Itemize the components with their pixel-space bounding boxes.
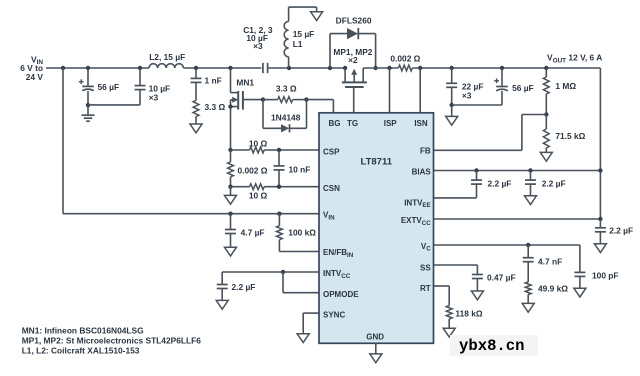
svg-text:2.2 µF: 2.2 µF [609,225,633,235]
wire 100pF bottom lead [579,276,581,288]
svg-text:0.002 Ω: 0.002 Ω [238,165,268,175]
wire 1N4148 right leg [290,127,307,129]
junction input 10uF tap [138,66,142,70]
wire ISP pin lead [389,68,391,113]
junction rail-to-VIN-pin column [61,66,65,70]
junction 56uF output tap [500,66,504,70]
junction BIAS-VOUT column [598,168,602,172]
wire to 22uF ground [451,105,453,116]
svg-text:10 Ω: 10 Ω [249,190,268,200]
transistor MN1 body arrow [231,99,238,101]
wire 4.7nF top lead [527,245,529,258]
wire 71.5k bottom lead [545,148,547,152]
watermark background [450,335,538,356]
ground BIAS cap2 [525,196,537,205]
wire FB pin path [434,149,522,151]
svg-text:×3: ×3 [253,41,263,51]
wire left VIN column down [62,68,64,214]
wire EXTVCC row [434,218,601,220]
ground 4.7uF [225,247,237,256]
svg-text:SYNC: SYNC [323,311,345,320]
junction 1M tap [544,66,548,70]
wire 0.47uF top lead [476,265,478,274]
wire 22uF bottom lead [451,87,453,105]
wire MN1 source stub [231,106,239,108]
capacitor 100pF [574,271,585,273]
wire MN1 drain lead [230,68,232,93]
svg-text:100 kΩ: 100 kΩ [288,227,316,237]
wire INTVCC row [222,271,319,273]
wire 1M bottom lead [545,94,547,115]
junction L1 tap [287,66,291,70]
svg-text:L1, L2: Coilcraft XAL1510-153: L1, L2: Coilcraft XAL1510-153 [22,345,140,355]
wire 100k to EN/FBIN [278,240,280,252]
svg-text:4.7 µF: 4.7 µF [241,227,265,237]
wire VIN rail segment 1 [46,67,149,69]
ground SYNC [297,334,309,343]
svg-text:ISN: ISN [414,119,428,128]
svg-text:10 Ω: 10 Ω [249,138,268,148]
capacitor C1,2,3 10uF x3 series [262,63,264,73]
svg-text:CSN: CSN [323,184,340,193]
svg-text:VOUT 12 V, 6 A: VOUT 12 V, 6 A [547,53,602,65]
svg-text:1 nF: 1 nF [205,76,222,86]
wire MN1 source to CSP [230,107,232,150]
resistor 49.9k [525,282,531,295]
ground 22uF [446,116,458,125]
wire 1N4148 left leg [262,100,264,129]
junction CSN left [228,185,232,189]
wire GND pin lead [375,343,377,354]
wire 10uF bottom lead [139,90,141,105]
wire CSP row right stub [264,149,319,151]
svg-text:LT8711: LT8711 [361,156,393,167]
svg-text:3.3 Ω: 3.3 Ω [276,84,297,94]
svg-text:×3: ×3 [462,91,472,101]
junction FB divider node [544,112,548,116]
ground 0.47uF [471,291,483,300]
op-amp U1 LT8711 body [319,113,434,343]
resistor 100k [277,226,283,240]
resistor 0.002R sense [228,162,234,177]
junction 22uF tap [450,66,454,70]
junction snubber tap [194,66,198,70]
wire DFLS260 right leg [358,33,375,35]
svg-text:MP1, MP2: St Microelectronics: MP1, MP2: St Microelectronics STL42P6LLF… [22,335,202,345]
svg-text:3.3 Ω: 3.3 Ω [205,102,226,112]
wire 0.47uF bottom lead [476,279,478,292]
svg-text:L1: L1 [293,39,303,49]
ground EXTVCC cap [594,244,606,253]
junction EXTVCC column [598,217,602,221]
capacitor 2.2uF INTVCC [217,284,228,286]
diode 1N4148 [281,124,289,132]
svg-text:MN1: Infineon BSC016N04LSG: MN1: Infineon BSC016N04LSG [22,325,144,335]
wire BIAS cap2 bottom lead [530,184,532,196]
transistor MN1 gate bar [242,91,244,110]
wire 56uF top lead [87,68,89,86]
wire 56uF output bottom lead [501,91,503,105]
wire ISN pin lead [419,68,421,113]
wire 3.3R to BG node [293,99,307,101]
ground 118k [443,328,455,337]
wire rail segment 5 [412,67,600,69]
transistor MP1/MP2 channel bar [342,81,367,83]
capacitor 4.7uF VIN [225,229,236,231]
junction input caps common [86,103,90,107]
svg-text:15 µF: 15 µF [293,29,315,39]
resistor 1M [543,77,549,94]
junction VC comp tap [526,243,530,247]
junction MN1 source [228,104,232,108]
capacitor 2.2uF BIAS-INTVEE [471,179,482,181]
resistor 71.5k [543,129,549,148]
junction BIAS cap1 tap [474,168,478,172]
svg-text:0.002 Ω: 0.002 Ω [390,53,420,63]
wire BIAS cap2 top lead [530,171,532,181]
wire 1M top lead [545,68,547,77]
svg-text:SS: SS [420,264,431,273]
wire SYNC lead [303,312,319,314]
wire sense resistor leads [230,150,232,162]
junction INTVCC-OPMODE [281,270,285,274]
wire 4.7nF to 49.9k [527,262,529,282]
wire 4.7uF bottom lead [230,234,232,248]
wire 2.2uF INTVCC bottom lead [221,289,223,301]
junction output caps common [450,103,454,107]
svg-text:ybx8.cn: ybx8.cn [459,337,525,355]
wire 100pF top lead [579,245,581,272]
wire MN1 gate lead [243,99,263,101]
resistor 118k [446,306,452,320]
transistor MP1/MP2 body arrow [353,71,355,83]
wire OPMODE link [282,272,284,293]
capacitor 2.2uF BIAS [525,179,536,181]
wire 100k top lead [278,214,280,226]
capacitor 1nF [191,77,202,79]
wire to input ground [87,105,89,115]
junction gate net left [261,97,265,101]
wire 4.7uF top lead [230,214,232,230]
label + polarity input 56uF [79,81,84,83]
wire input caps bottom link [88,104,140,106]
svg-text:24 V: 24 V [26,72,44,82]
wire RT lead [434,285,450,287]
ground GND pin [370,354,382,363]
wire 71.5k top lead [545,115,547,130]
svg-text:2.2 µF: 2.2 µF [488,178,512,188]
svg-text:0.47 µF: 0.47 µF [487,273,516,283]
svg-text:MN1: MN1 [236,78,254,88]
junction CSP right [277,148,281,152]
ground 71.5k [540,152,552,161]
svg-text:×2: ×2 [348,55,358,65]
svg-text:1N4148: 1N4148 [271,112,301,122]
ground snubber [190,124,202,133]
wire gate to 3.3R [263,99,278,101]
svg-text:100 pF: 100 pF [592,271,619,281]
wire BG pin lead [307,99,334,101]
junction DFLS260 anode tap [328,66,332,70]
inductor L2 [149,64,183,68]
wire 2.2uF INTVCC top lead [221,272,223,284]
junction 4.7uF tap [228,212,232,216]
svg-text:L2, 15 µF: L2, 15 µF [149,52,185,62]
wire snubber top lead [195,68,197,78]
junction MP drain / diode node [373,66,377,70]
inductor L1 [284,21,288,56]
svg-text:10 nF: 10 nF [289,164,311,174]
junction 100k tap [277,212,281,216]
ground L1 top [311,12,323,21]
capacitor 56uF output [496,86,508,88]
resistor 0.002R output shunt [398,65,412,71]
wire 56uF bottom lead [87,91,89,105]
svg-text:2.2 µF: 2.2 µF [542,178,566,188]
diode DFLS260 [347,28,358,39]
svg-text:CSP: CSP [323,148,340,157]
transistor MP1/MP2 gate bar [345,86,364,88]
svg-text:49.9 kΩ: 49.9 kΩ [538,284,568,294]
svg-text:×3: ×3 [149,92,159,102]
capacitor 2.2uF EXTVCC [595,227,606,229]
wire CSN to ground [230,187,232,196]
junction MN1 drain tap [228,66,232,70]
junction input 56uF tap [86,66,90,70]
junction CSN right [277,185,281,189]
svg-text:71.5 kΩ: 71.5 kΩ [555,131,585,141]
wire 10uF top lead [139,68,141,86]
ground CSN [225,195,237,204]
svg-text:2.2 µF: 2.2 µF [232,282,256,292]
resistor 10R CSP [250,147,265,153]
ground 2.2uF INTVCC [216,300,228,309]
wire INTVEE return [476,184,478,198]
wire 56uF output top lead [501,68,503,86]
wire VOUT right column [599,68,601,219]
svg-text:4.7 nF: 4.7 nF [538,256,562,266]
wire 22uF top lead [451,68,453,83]
junction MP source tap [343,66,347,70]
capacitor 0.47uF [472,274,483,276]
wire SS row [434,264,478,266]
ground 49.9k [522,303,534,312]
wire EXTVCC cap top lead [599,219,601,228]
svg-text:DFLS260: DFLS260 [336,15,372,25]
capacitor 4.7nF [523,257,534,259]
transistor MP1/MP2 source stub [344,68,346,82]
svg-text:118 kΩ: 118 kΩ [455,308,482,318]
wire CSN row right stub [264,186,319,188]
label + polarity output 56uF [494,80,499,82]
wire CSP row left stub [231,149,250,151]
wire EXTVCC cap bottom lead [599,232,601,244]
capacitor 10nF sense [274,165,285,167]
wire VIN pin row [63,213,319,215]
wire snubber bottom lead [195,117,197,125]
resistor 3.3R snubber [193,101,199,117]
svg-text:FB: FB [420,146,431,155]
resistor 3.3R gate [278,97,293,103]
wire BIAS cap1 top lead [476,171,478,181]
svg-text:56 µF: 56 µF [98,82,120,92]
svg-text:TG: TG [347,119,358,128]
wire 10nF leads [278,150,280,166]
capacitor 22uF x3 output [446,82,457,84]
svg-text:GND: GND [366,333,384,342]
wire BIAS row [434,170,601,172]
svg-text:56 µF: 56 µF [512,83,534,93]
svg-text:BIAS: BIAS [412,168,432,177]
wire rail segment 2 [183,67,261,69]
junction CSP left [228,148,232,152]
junction ISN tap [418,66,422,70]
svg-text:ISP: ISP [384,119,398,128]
wire L1 top to ground [288,7,290,21]
wire VC row [434,244,580,246]
resistor 10R CSN [250,184,265,190]
wire 49.9k bottom lead [527,295,529,304]
transistor MP1/MP2 drain stub [362,68,364,82]
transistor MN1 channel bar [237,91,239,110]
svg-text:BG: BG [329,119,341,128]
wire 118k bottom lead [448,319,450,328]
capacitor C 56uF input [82,85,94,87]
wire CSN row left stub [231,186,250,188]
svg-text:OPMODE: OPMODE [323,290,359,299]
wire rail segment 3 [268,67,346,69]
wire DFLS260 left leg [329,34,331,68]
junction gate net right [304,97,308,101]
wire snubber mid lead [195,82,197,100]
ground 100pF [574,288,586,297]
junction BIAS cap2 tap [528,168,532,172]
junction ISP tap [387,66,391,70]
ground earth input [82,114,95,116]
svg-text:RT: RT [420,284,431,293]
capacitor 10uF x3 input [135,85,146,87]
svg-text:1 MΩ: 1 MΩ [555,81,576,91]
wire rail segment 4 [363,67,398,69]
wire TG pin lead [353,87,355,113]
wire L1 bottom lead [288,57,290,68]
